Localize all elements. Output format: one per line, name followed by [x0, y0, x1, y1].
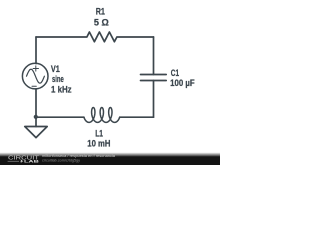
svg-text:1 kHz: 1 kHz: [51, 85, 72, 95]
svg-text:V1: V1: [51, 64, 60, 74]
svg-text:circuitlab.com/c/tdg5gy: circuitlab.com/c/tdg5gy: [42, 157, 80, 162]
svg-text:5 Ω: 5 Ω: [94, 18, 109, 28]
svg-text:sine: sine: [52, 74, 64, 84]
svg-text:10 mH: 10 mH: [87, 138, 110, 148]
svg-text:C1: C1: [171, 68, 179, 78]
svg-text:LAB: LAB: [24, 159, 39, 164]
svg-text:100 µF: 100 µF: [170, 78, 195, 88]
svg-text:R1: R1: [96, 7, 105, 17]
svg-text:L1: L1: [95, 128, 103, 138]
